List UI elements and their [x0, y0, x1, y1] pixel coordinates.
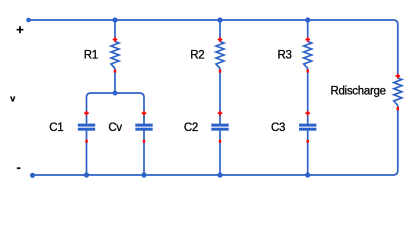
wire R2 to C2 [219, 69, 221, 124]
node terminal dot - (bottom left) [30, 173, 35, 178]
red plus pin marker C1 top [84, 112, 89, 114]
wire right lower segment below Rdischarge [33, 106, 398, 176]
red plus pin marker Cv top [142, 112, 147, 114]
capacitor Cv plates [135, 124, 152, 127]
resistor R2 [216, 42, 224, 69]
red plus pin marker C3 top [305, 112, 310, 114]
svg-text:R2: R2 [190, 50, 204, 62]
red square pin marker C2 bottom [219, 140, 221, 143]
junction node C1 bottom [84, 172, 89, 177]
red plus pin marker C2 top [218, 112, 223, 114]
junction node branch3 top [305, 17, 310, 22]
junction node branch1 top [112, 17, 117, 22]
svg-text:Rdischarge: Rdischarge [331, 86, 386, 98]
wire top rail (+) with right corner [29, 20, 398, 78]
red plus pin marker R2 top [218, 39, 223, 41]
red plus pin marker Rdischarge top [396, 75, 401, 77]
wire branch2 top rail to R2 [219, 20, 221, 42]
junction node C2 bottom [217, 172, 222, 177]
svg-text:C2: C2 [184, 122, 198, 134]
junction node parallel split [113, 91, 118, 96]
capacitor C1 plates [78, 124, 95, 127]
red square pin marker C3 bottom [307, 140, 309, 143]
svg-text:R1: R1 [84, 50, 98, 62]
wire C3 to bottom rail [307, 131, 309, 175]
resistor R1 [111, 42, 119, 69]
svg-text:-: - [17, 160, 21, 175]
junction node Cv bottom [141, 172, 146, 177]
wire branch1 top rail to R1 [114, 20, 116, 42]
svg-text:R3: R3 [278, 50, 292, 62]
svg-text:Cv: Cv [108, 122, 122, 134]
red square pin marker R3 bottom [307, 69, 309, 72]
wire parallel bracket for C1 and Cv [87, 93, 145, 124]
svg-text:+: + [16, 22, 24, 37]
wire R3 to C3 [307, 69, 309, 124]
wire Cv to bottom rail [143, 131, 145, 175]
svg-text:C3: C3 [271, 122, 285, 134]
junction node branch2 top [217, 17, 222, 22]
capacitor C2 plates [211, 124, 228, 127]
junction node C3 bottom [305, 172, 310, 177]
node terminal dot + (top left) [26, 18, 31, 23]
red plus pin marker R3 top [305, 39, 310, 41]
red square pin marker C1 bottom [85, 140, 87, 143]
red square pin marker Cv bottom [143, 140, 145, 143]
red square pin marker R1 bottom [114, 69, 116, 72]
wire C2 to bottom rail [219, 131, 221, 175]
capacitor C3 plates [299, 124, 316, 127]
wire branch3 top rail to R3 [307, 20, 309, 42]
red square pin marker Rdischarge bottom [397, 107, 399, 110]
svg-text:v: v [10, 93, 15, 103]
resistor Rdischarge [394, 78, 402, 106]
svg-text:C1: C1 [49, 122, 63, 134]
wire C1 to bottom rail [86, 131, 88, 175]
wire R1 to parallel junction [114, 69, 116, 94]
red square pin marker R2 bottom [219, 69, 221, 72]
red plus pin marker R1 top [113, 39, 118, 41]
resistor R3 [304, 42, 312, 69]
